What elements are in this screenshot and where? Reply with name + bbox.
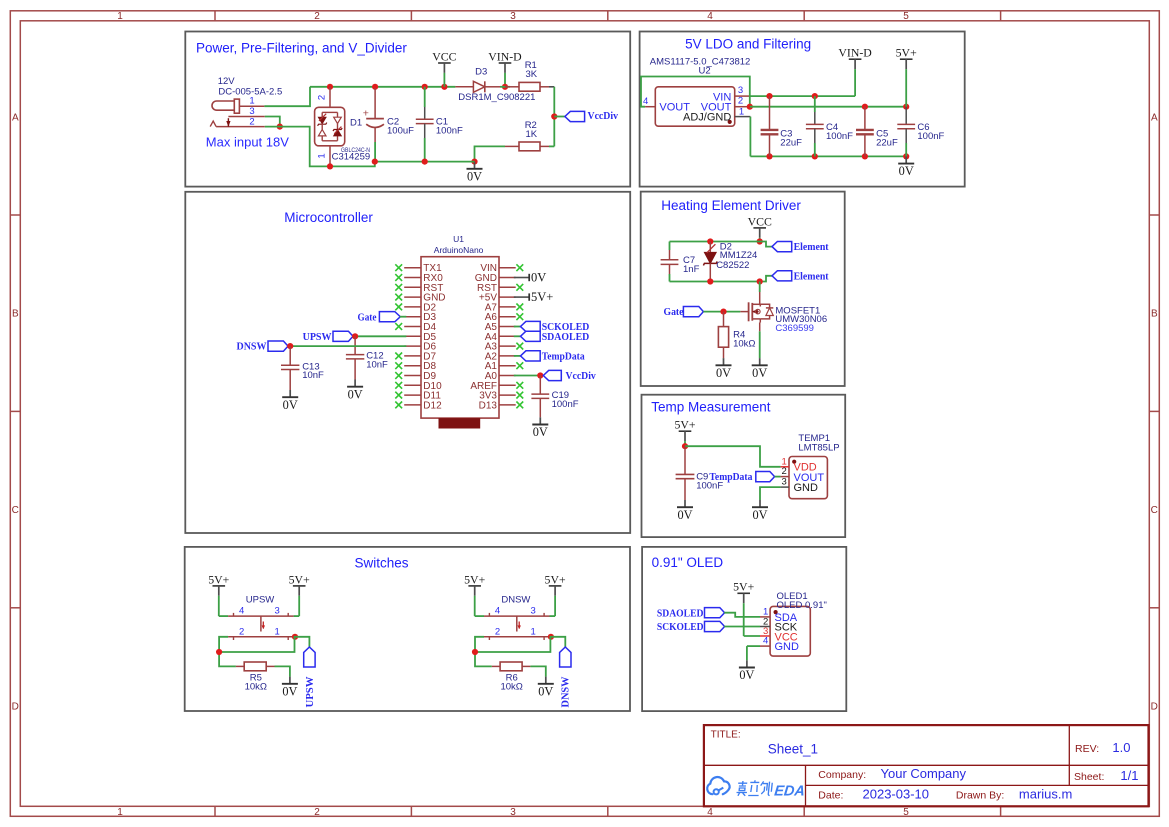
svg-text:3: 3 xyxy=(738,85,743,96)
wire GND pin to ground xyxy=(760,487,781,500)
pin D9 of U1 (left) xyxy=(404,371,436,382)
svg-text:ADJ/GND: ADJ/GND xyxy=(683,112,731,124)
junction C5 bottom xyxy=(862,153,868,159)
no-connect X on U1 D11 xyxy=(395,392,402,399)
svg-text:0V: 0V xyxy=(282,684,297,698)
svg-text:3: 3 xyxy=(530,606,535,617)
title block Drawn By xyxy=(956,786,1072,801)
power flag 5V+ (OLED) xyxy=(733,580,754,636)
pin AREF of U1 (right) xyxy=(470,381,515,392)
no-connect X on U1 TX1 xyxy=(395,264,402,271)
net flag Gate (heater) xyxy=(664,306,704,318)
junction DNSW pin1 xyxy=(548,634,554,640)
pin 2 SCK of OLED1 xyxy=(760,616,770,627)
svg-text:0V: 0V xyxy=(467,169,482,183)
wire R5 to ground xyxy=(275,666,290,676)
svg-text:OLED 0.91": OLED 0.91" xyxy=(777,600,827,611)
svg-text:UPSW: UPSW xyxy=(304,677,316,708)
junction D2 bottom xyxy=(707,278,713,284)
svg-text:100nF: 100nF xyxy=(826,131,853,142)
pin GND of U1 (left) xyxy=(404,293,445,304)
wire U2 pin1 down to ground rail xyxy=(749,117,751,157)
svg-text:4: 4 xyxy=(239,606,244,617)
wire 5V+ a to switch DNSW xyxy=(475,615,484,617)
junction C6 bottom xyxy=(903,153,909,159)
wire 5V+ b to switch UPSW xyxy=(294,615,300,617)
wire top rail (VCC net) xyxy=(310,86,455,88)
svg-text:2: 2 xyxy=(495,626,500,637)
ground 0V (TEMP1) xyxy=(752,500,768,522)
svg-text:VCC: VCC xyxy=(432,49,456,63)
power flag 5V+ (temp) xyxy=(674,418,695,447)
svg-text:5V LDO and Filtering: 5V LDO and Filtering xyxy=(685,36,811,51)
svg-text:100nF: 100nF xyxy=(436,126,463,137)
svg-text:Element: Element xyxy=(794,270,829,282)
svg-text:C369599: C369599 xyxy=(775,323,814,334)
svg-text:10nF: 10nF xyxy=(366,360,388,371)
pin 1 VDD of TEMP1 xyxy=(781,456,789,467)
svg-text:D13: D13 xyxy=(479,400,498,411)
wire A0 to VccDiv/C19 xyxy=(514,375,541,377)
svg-text:Your Company: Your Company xyxy=(881,766,967,781)
pin D8 of U1 (left) xyxy=(404,361,436,372)
svg-text:100nF: 100nF xyxy=(552,399,579,410)
wire TempData to VOUT xyxy=(775,476,781,478)
ground 0V (source) xyxy=(752,358,768,380)
svg-text:TITLE:: TITLE: xyxy=(711,730,741,741)
svg-text:D: D xyxy=(1151,702,1158,713)
wire A5 to SCKOLED xyxy=(514,326,521,328)
section box: 5V LDO and Filtering xyxy=(640,32,965,187)
pin +5V of U1 (right) xyxy=(479,293,516,304)
svg-text:4: 4 xyxy=(495,606,500,617)
power flag 5V+ (DNSW a) xyxy=(464,572,485,616)
no-connect X on U1 A1 xyxy=(516,362,523,369)
svg-text:C: C xyxy=(1151,505,1158,516)
svg-text:DNSW: DNSW xyxy=(501,594,530,605)
wire U2 pin4 loop to VOUT net xyxy=(641,77,750,107)
svg-text:Microcontroller: Microcontroller xyxy=(284,210,373,225)
pin A1 of U1 (right) xyxy=(485,361,516,372)
net flag Element (top) xyxy=(772,241,829,253)
svg-text:5: 5 xyxy=(903,807,909,818)
pin 3 GND of TEMP1 xyxy=(781,477,789,488)
svg-text:B: B xyxy=(12,309,19,320)
net flag DNSW (up-pointing) xyxy=(560,647,572,708)
wire 5V+ riser xyxy=(905,77,907,107)
svg-text:Max input 18V: Max input 18V xyxy=(206,135,289,150)
wire heater top rail xyxy=(670,242,773,247)
wire A4 to SDAOLED xyxy=(514,335,521,337)
svg-text:100nF: 100nF xyxy=(917,131,944,142)
title block Date xyxy=(818,786,929,801)
pin VIN of U1 (right) xyxy=(480,263,515,274)
pin A7 of U1 (right) xyxy=(485,302,516,313)
no-connect X on U1 D12 xyxy=(395,402,402,409)
pin 2 VOUT of TEMP1 xyxy=(781,466,789,477)
power flag 5V+ (UPSW a) xyxy=(208,572,229,616)
svg-text:2: 2 xyxy=(782,466,787,477)
svg-text:DNSW: DNSW xyxy=(560,677,572,708)
pin D5 of U1 (left) xyxy=(404,332,436,343)
svg-text:2: 2 xyxy=(317,95,328,100)
net flag TempData (temp) xyxy=(709,471,774,483)
no-connect X on U1 D9 xyxy=(395,372,402,379)
junction ground rail at R2 xyxy=(471,159,477,165)
no-connect X on U1 A6 xyxy=(516,313,523,320)
junction D1 pin2 on top rail xyxy=(327,84,333,90)
no-connect X on U1 A7 xyxy=(516,304,523,311)
net flag SCKOLED (OLED) xyxy=(657,621,725,633)
svg-text:TempData: TempData xyxy=(709,471,752,483)
svg-text:0V: 0V xyxy=(739,668,754,682)
net flag DNSW (mcu) xyxy=(237,341,289,353)
switch UPSW xyxy=(228,613,294,640)
junction U2 pin2 / loop xyxy=(747,104,753,110)
svg-text:1: 1 xyxy=(117,11,123,22)
svg-text:VccDiv: VccDiv xyxy=(566,370,597,382)
no-connect X on U1 D2 xyxy=(395,304,402,311)
mcu U1 ArduinoNano body xyxy=(421,234,499,428)
svg-text:1nF: 1nF xyxy=(683,264,700,275)
svg-text:C: C xyxy=(12,505,19,516)
svg-text:10kΩ: 10kΩ xyxy=(733,338,755,349)
svg-text:REV:: REV: xyxy=(1075,743,1099,755)
svg-text:4: 4 xyxy=(707,807,713,818)
svg-text:0V: 0V xyxy=(899,164,914,178)
svg-text:U1: U1 xyxy=(453,234,464,244)
wire drain riser xyxy=(759,282,761,293)
junction UPSW pin1 xyxy=(292,634,298,640)
svg-text:5V+: 5V+ xyxy=(733,580,754,594)
wire UPSW pin2 loop to resistor xyxy=(219,637,236,667)
junction C4 bottom xyxy=(812,153,818,159)
svg-text:0V: 0V xyxy=(531,271,546,285)
pin 2 VOUT of U2 xyxy=(735,96,751,107)
svg-text:U2: U2 xyxy=(699,66,711,77)
pin 1 SDA of OLED1 xyxy=(760,607,770,618)
svg-text:Sheet:: Sheet: xyxy=(1074,771,1104,783)
ground 0V (R6) xyxy=(538,677,554,699)
wire R2 left to ground rail xyxy=(475,146,506,161)
svg-text:1: 1 xyxy=(317,153,328,158)
wire bottom ground rail xyxy=(330,162,475,167)
net flag Element (bottom) xyxy=(772,270,829,282)
svg-text:1: 1 xyxy=(249,96,254,107)
junction VCC flag on top rail xyxy=(441,84,447,90)
junction J1 pin3/pin2 xyxy=(277,124,283,130)
resistor R4 10k xyxy=(718,312,728,359)
net flag 5V+ on U1 +5V xyxy=(514,290,554,304)
wire J1 pin1 to top rail xyxy=(264,87,310,106)
junction C3 bottom xyxy=(766,153,772,159)
resistor R2 xyxy=(505,142,549,151)
net flag 0V on U1 GND xyxy=(514,271,546,285)
svg-text:DSR1M_C908221: DSR1M_C908221 xyxy=(458,92,535,103)
ground 0V (R4) xyxy=(716,358,732,380)
svg-text:5V+: 5V+ xyxy=(464,572,485,586)
svg-text:EDA: EDA xyxy=(773,784,805,800)
svg-text:0V: 0V xyxy=(752,366,767,380)
svg-text:A: A xyxy=(1151,113,1158,124)
wire VIN-D riser xyxy=(854,77,856,97)
regulator U2 AMS1117-5.0 xyxy=(650,56,751,126)
net flag SCKOLED (mcu) xyxy=(521,321,590,333)
pin 4 VOUT of U2 xyxy=(643,96,655,107)
svg-text:2: 2 xyxy=(738,96,743,107)
pin D6 of U1 (left) xyxy=(404,342,436,353)
ground 0V power divider xyxy=(467,162,483,184)
svg-text:0V: 0V xyxy=(716,366,731,380)
net flag UPSW (mcu) xyxy=(303,331,353,343)
wire R2 right to VccDiv vertical xyxy=(549,145,554,147)
svg-text:5V+: 5V+ xyxy=(531,290,553,304)
wire VIN net xyxy=(750,95,855,97)
power flag VIN-D xyxy=(488,49,522,86)
no-connect X on U1 3V3 xyxy=(516,392,523,399)
pin 3 VIN of U2 xyxy=(735,85,751,96)
pin D4 of U1 (left) xyxy=(404,322,436,333)
svg-text:TempData: TempData xyxy=(542,351,585,363)
junction C5 on VOUT xyxy=(862,104,868,110)
capacitor C1 100nF xyxy=(416,87,434,162)
junction C2 bottom xyxy=(372,159,378,165)
wire SCKOLED to pin 2 xyxy=(724,626,760,628)
svg-text:C314259: C314259 xyxy=(332,152,371,163)
wire DNSW pin1 to flag xyxy=(550,637,566,647)
wire vertical VccDiv net xyxy=(553,87,555,147)
svg-text:GND: GND xyxy=(794,482,819,494)
svg-text:12V: 12V xyxy=(218,76,236,87)
wire A2 to TempData xyxy=(514,355,521,357)
svg-text:Temp Measurement: Temp Measurement xyxy=(651,400,771,415)
net flag Gate on U1 D3 xyxy=(358,311,401,323)
wire 5V+ to TEMP1 VDD xyxy=(685,446,781,467)
pin A2 of U1 (right) xyxy=(485,351,516,362)
wire 5V+ to OLED VCC xyxy=(744,635,760,637)
svg-text:5V+: 5V+ xyxy=(896,46,917,60)
net flag SDAOLED (mcu) xyxy=(521,331,590,343)
junction C12/UPSW xyxy=(352,333,358,339)
pin D3 of U1 (left) xyxy=(404,312,436,323)
wire J1 pin3 jog down xyxy=(265,117,280,127)
svg-text:Heating Element Driver: Heating Element Driver xyxy=(661,198,801,213)
wire Gate to MOSFET xyxy=(703,311,740,313)
title block REV xyxy=(1075,740,1130,755)
no-connect X on U1 D10 xyxy=(395,382,402,389)
pin D10 of U1 (left) xyxy=(404,381,442,392)
pin 3 VCC of OLED1 xyxy=(760,626,770,637)
capacitor C12 10nF xyxy=(346,336,364,379)
junction D2 top xyxy=(707,238,713,244)
svg-text:+: + xyxy=(363,108,369,120)
svg-text:2: 2 xyxy=(314,11,320,22)
wire 5V+ a to switch UPSW xyxy=(219,615,228,617)
pin RST of U1 (right) xyxy=(477,283,516,294)
pin A6 of U1 (right) xyxy=(485,312,516,323)
pin D11 of U1 (left) xyxy=(404,391,441,402)
svg-text:3: 3 xyxy=(510,11,516,22)
svg-text:0V: 0V xyxy=(538,684,553,698)
svg-text:5V+: 5V+ xyxy=(674,418,695,432)
pin A3 of U1 (right) xyxy=(485,342,516,353)
svg-text:5V+: 5V+ xyxy=(545,572,566,586)
wire Gate flag to D3 xyxy=(400,316,407,318)
svg-text:D: D xyxy=(12,702,19,713)
svg-text:UPSW: UPSW xyxy=(246,594,275,605)
svg-text:0V: 0V xyxy=(752,508,767,522)
svg-text:3: 3 xyxy=(510,807,516,818)
junction C9 tap xyxy=(682,443,688,449)
svg-text:0V: 0V xyxy=(677,508,692,522)
no-connect X on U1 AREF xyxy=(516,382,523,389)
capacitor C13 10nF xyxy=(281,346,299,390)
svg-text:Sheet_1: Sheet_1 xyxy=(768,741,818,756)
svg-text:2: 2 xyxy=(249,116,254,127)
wire UPSW to U1 D5 xyxy=(355,335,406,337)
wire R1 to VccDiv corner xyxy=(549,86,554,88)
capacitor C2 100uF polarized xyxy=(363,88,384,162)
pin D2 of U1 (left) xyxy=(404,302,436,313)
ground 0V (C19) xyxy=(532,417,548,439)
svg-text:22uF: 22uF xyxy=(876,137,898,148)
svg-text:5V+: 5V+ xyxy=(208,572,229,586)
resistor R5 10k xyxy=(236,662,275,671)
svg-text:100uF: 100uF xyxy=(387,126,414,137)
wire to VccDiv flag xyxy=(554,116,565,118)
svg-text:2: 2 xyxy=(314,807,320,818)
no-connect X on U1 D8 xyxy=(395,362,402,369)
power flag VIN-D (LDO) xyxy=(838,46,872,77)
svg-text:5V+: 5V+ xyxy=(289,572,310,586)
svg-text:A: A xyxy=(12,113,19,124)
section box: 0.91 inch OLED xyxy=(642,547,846,711)
junction C1 on top rail xyxy=(422,84,428,90)
transistor MOSFET1 UMW30N06 N-MOSFET xyxy=(740,292,773,331)
pin 3V3 of U1 (right) xyxy=(479,391,515,402)
junction VccDiv tap xyxy=(551,113,557,119)
svg-text:DNSW: DNSW xyxy=(237,341,267,353)
junction MOSFET drain tap xyxy=(757,278,763,284)
wire UPSW pin1 to flag xyxy=(294,637,310,647)
title block xyxy=(704,725,1149,806)
pin D13 of U1 (right) xyxy=(479,400,516,411)
ground 0V (OLED) xyxy=(739,660,755,682)
section box: Microcontroller xyxy=(185,192,630,533)
section box: Power, Pre-Filtering, and V_Divider xyxy=(185,32,630,187)
zener diode D2 MM1Z24 xyxy=(703,242,717,282)
ground 0V (R5) xyxy=(282,677,298,699)
connector J1 12V DC-005-5A-2.5 barrel jack xyxy=(210,76,282,127)
svg-text:VIN-D: VIN-D xyxy=(838,46,872,60)
pin A0 of U1 (right) xyxy=(485,371,516,382)
sensor TEMP1 LMT85LP xyxy=(789,433,840,499)
svg-text:2: 2 xyxy=(239,626,244,637)
junction C6 / 5V+ on VOUT xyxy=(903,104,909,110)
svg-text:Gate: Gate xyxy=(664,306,684,318)
pin A5 of U1 (right) xyxy=(485,322,516,333)
svg-text:GND: GND xyxy=(775,641,800,653)
power flag VCC (heater) xyxy=(748,214,772,241)
svg-text:1: 1 xyxy=(530,626,535,637)
svg-text:SCKOLED: SCKOLED xyxy=(657,621,704,633)
power flag VCC xyxy=(432,49,456,86)
svg-text:marius.m: marius.m xyxy=(1019,786,1072,801)
svg-text:5: 5 xyxy=(903,11,909,22)
junction C19/VccDiv xyxy=(537,372,543,378)
resistor R6 10k xyxy=(492,662,531,671)
no-connect X on U1 GND xyxy=(395,294,402,301)
no-connect X on U1 RST xyxy=(395,284,402,291)
junction C3 on VIN xyxy=(766,93,772,99)
junction D1 pin1 on ground stub xyxy=(327,163,333,169)
no-connect X on U1 D7 xyxy=(395,353,402,360)
logo JLCEDA cloud xyxy=(707,777,729,794)
svg-text:4: 4 xyxy=(643,96,648,107)
junction C13/DNSW xyxy=(287,343,293,349)
wire source to ground xyxy=(759,331,761,358)
svg-text:0.91" OLED: 0.91" OLED xyxy=(652,555,724,570)
svg-text:10kΩ: 10kΩ xyxy=(500,682,522,693)
capacitor C19 100nF xyxy=(531,376,549,418)
ground 0V (C12) xyxy=(347,380,363,402)
wire D3 to R1 xyxy=(500,86,510,88)
wire LDO ground rail xyxy=(750,155,906,157)
net flag UPSW (up-pointing) xyxy=(304,647,316,708)
net flag VccDiv xyxy=(565,110,619,122)
svg-text:0V: 0V xyxy=(348,387,363,401)
wire DNSW to U1 D6 xyxy=(290,345,406,347)
svg-text:Gate: Gate xyxy=(358,311,377,323)
wire DNSW loop across xyxy=(475,637,550,652)
svg-text:Element: Element xyxy=(794,241,829,253)
title block Company xyxy=(818,766,966,781)
svg-text:SDAOLED: SDAOLED xyxy=(657,607,704,619)
pin RST of U1 (left) xyxy=(404,283,443,294)
junction VCC on heater rail xyxy=(757,238,763,244)
pin GND of U1 (right) xyxy=(475,273,516,284)
bridge rectifier D1 GBLC24C-N xyxy=(315,87,345,167)
junction DNSW loop xyxy=(472,649,478,655)
svg-text:VCC: VCC xyxy=(748,214,772,228)
svg-text:0V: 0V xyxy=(283,398,298,412)
pin TX1 of U1 (left) xyxy=(404,263,442,274)
svg-text:B: B xyxy=(1151,309,1158,320)
junction C4 on VIN xyxy=(812,93,818,99)
svg-text:3: 3 xyxy=(249,106,254,117)
pin 4 GND of OLED1 xyxy=(760,636,770,647)
resistor R1 xyxy=(505,82,549,91)
diode D3 DSR1M xyxy=(455,81,500,92)
title block Sheet number xyxy=(1074,768,1138,783)
svg-text:4: 4 xyxy=(763,636,768,647)
svg-text:2023-03-10: 2023-03-10 xyxy=(863,786,930,801)
svg-text:VccDiv: VccDiv xyxy=(588,110,619,122)
wire UPSW loop across xyxy=(219,637,294,652)
section box: Switches xyxy=(185,547,630,711)
no-connect X on U1 RST xyxy=(516,284,523,291)
svg-text:ArduinoNano: ArduinoNano xyxy=(434,245,484,255)
logo JLCEDA text xyxy=(736,780,806,799)
pin RX0 of U1 (left) xyxy=(404,273,443,284)
svg-text:3K: 3K xyxy=(526,69,538,80)
wire DNSW pin2 loop to resistor xyxy=(475,637,492,667)
junction C1 bottom xyxy=(422,159,428,165)
svg-text:1: 1 xyxy=(117,807,123,818)
svg-text:1.0: 1.0 xyxy=(1112,740,1130,755)
display OLED1 0.91" xyxy=(770,591,827,656)
junction C2 on top rail xyxy=(372,84,378,90)
